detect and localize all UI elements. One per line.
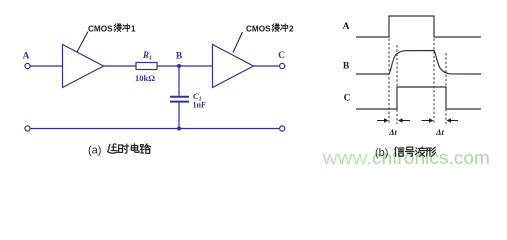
svg-text:1nF: 1nF — [193, 101, 206, 110]
resistor R1 — [136, 63, 157, 70]
bottom rail wire — [30, 128, 279, 130]
wire node B down to C1 — [178, 66, 180, 96]
svg-text:Δt: Δt — [388, 127, 397, 137]
leader line to buffer 1 — [77, 32, 88, 53]
svg-text:R1: R1 — [142, 50, 152, 62]
svg-text:(b): (b) — [375, 147, 388, 159]
waveform A trace — [356, 16, 481, 37]
svg-text:CMOS: CMOS — [246, 25, 271, 34]
svg-text:(a): (a) — [88, 145, 101, 157]
op-amp U1 CMOS buffer 1 — [63, 45, 104, 88]
svg-text:A: A — [343, 22, 350, 32]
junction dot on bottom rail — [177, 127, 181, 131]
wire R1 to buffer 2 — [157, 65, 213, 67]
node A terminal — [25, 63, 30, 68]
leader line to buffer 2 — [233, 32, 243, 53]
arrow pointing right at first dt — [377, 120, 386, 122]
svg-text:C: C — [278, 51, 285, 61]
node C terminal — [280, 63, 285, 68]
svg-text:CMOS: CMOS — [88, 25, 113, 34]
svg-text:www.: www. — [321, 148, 372, 168]
svg-text:B: B — [176, 52, 183, 62]
op-amp U2 CMOS buffer 2 — [213, 45, 254, 88]
dashed guide at A falling edge — [433, 39, 435, 125]
dashed guide at C rising edge — [396, 45, 398, 124]
wire C1 down to rail — [178, 103, 180, 129]
svg-text:A: A — [23, 52, 30, 62]
waveform C trace — [356, 87, 481, 109]
node B junction — [177, 64, 181, 68]
arrow pointing left at second dt — [450, 120, 459, 122]
svg-text:2: 2 — [289, 25, 294, 34]
svg-text:C: C — [344, 94, 351, 104]
wire buffer1 to R1 — [104, 65, 137, 67]
arrow pointing right at second dt — [422, 120, 431, 122]
svg-text:Δt: Δt — [435, 127, 444, 137]
arrow pointing left at first dt — [401, 120, 410, 122]
wire A to buffer 1 — [30, 65, 62, 67]
svg-text:10kΩ: 10kΩ — [135, 73, 155, 83]
bottom-right terminal — [280, 126, 285, 131]
capacitor C1 — [170, 96, 189, 98]
waveform B trace — [356, 51, 481, 75]
svg-text:1: 1 — [131, 25, 136, 34]
dashed guide at A rising edge — [388, 39, 390, 125]
wire buffer2 to node C — [254, 65, 280, 67]
svg-text:B: B — [343, 62, 350, 72]
bottom-left terminal — [25, 126, 30, 131]
dashed guide at C falling edge — [445, 53, 447, 124]
